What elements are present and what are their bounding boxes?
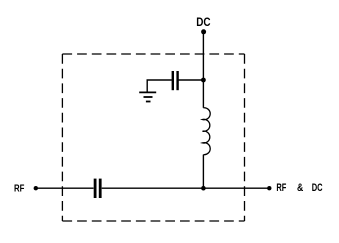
svg-text:DC: DC <box>312 182 323 194</box>
wire blocking capacitor to output terminal <box>102 187 268 189</box>
terminal node DC <box>201 29 206 34</box>
label RF <box>14 183 25 195</box>
wire junction to inductor <box>202 80 204 108</box>
terminal node RF <box>34 186 38 190</box>
label DC <box>196 15 210 29</box>
svg-text:RF: RF <box>14 183 25 195</box>
svg-text:RF: RF <box>276 182 286 194</box>
dashed enclosure box <box>62 54 244 221</box>
node junction of bypass capacitor and inductor <box>201 78 206 83</box>
wire ground to bypass capacitor <box>147 80 172 92</box>
wire DC terminal to junction <box>202 33 204 80</box>
label RF & DC <box>276 182 322 194</box>
wire bypass capacitor to junction <box>179 79 204 81</box>
terminal node RF and DC output <box>267 186 271 190</box>
node junction of inductor and RF line <box>201 186 206 191</box>
inductor <box>203 108 211 155</box>
blocking capacitor <box>95 179 100 198</box>
wire inductor to output node <box>202 155 204 189</box>
svg-text:DC: DC <box>196 15 210 29</box>
svg-text:&: & <box>297 182 303 194</box>
wire RF terminal to blocking capacitor <box>37 187 94 189</box>
bypass capacitor <box>173 71 178 90</box>
ground <box>139 92 156 101</box>
